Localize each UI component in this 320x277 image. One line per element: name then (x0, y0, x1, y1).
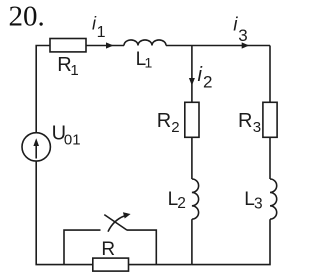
svg-text:1: 1 (97, 24, 106, 41)
label R2 (157, 110, 180, 136)
wire: left branch, source to bottom-left corner (36, 161, 93, 265)
inductor L1 (124, 40, 166, 46)
wire: R1 to L1 (86, 45, 124, 47)
svg-text:1: 1 (70, 62, 78, 79)
current arrow i2 (189, 78, 195, 86)
current arrow i3 (242, 42, 250, 48)
wire: bypass left stub (64, 230, 101, 265)
resistor R3 (263, 102, 277, 137)
wire: L1 to top-right corner (166, 45, 270, 47)
label L2 (168, 189, 186, 212)
wire: R to bottom-right segment (129, 264, 192, 266)
current arrow i1 (106, 42, 114, 48)
label R3 (238, 110, 261, 136)
wire: bypass right stub (127, 230, 157, 265)
svg-text:20.: 20. (9, 0, 45, 32)
svg-text:2: 2 (171, 119, 179, 136)
svg-text:R: R (101, 239, 115, 260)
svg-text:R: R (238, 110, 252, 132)
svg-text:01: 01 (64, 132, 81, 149)
resistor R1 (50, 39, 86, 52)
wire: middle branch, junction to R2 (191, 46, 193, 103)
svg-text:3: 3 (238, 26, 247, 45)
inductor L2 (192, 179, 199, 219)
label R1 (57, 54, 79, 79)
wire: top-left corner to R1 (36, 46, 50, 133)
label U01 (52, 123, 81, 149)
svg-text:1: 1 (145, 55, 153, 71)
label i3 (233, 15, 248, 45)
resistor R (bottom, shunted by switch) (93, 258, 129, 271)
label L1 (136, 49, 153, 71)
resistor R2 (185, 102, 199, 137)
switch blade (104, 215, 127, 231)
svg-text:2: 2 (203, 73, 212, 92)
inductor L3 (270, 179, 277, 219)
svg-text:3: 3 (253, 119, 261, 136)
wire: L3 to bottom-right corner (192, 219, 270, 264)
svg-text:i: i (198, 64, 203, 86)
label i2 (198, 64, 213, 92)
svg-text:3: 3 (254, 196, 263, 213)
svg-text:2: 2 (177, 195, 186, 212)
wire: R2 to L2 (191, 137, 193, 179)
label L3 (244, 189, 262, 213)
wire: L2 to bottom wire (191, 219, 193, 264)
label i1 (92, 13, 106, 41)
switch motion arrow (108, 212, 131, 231)
wire: R3 to L3 (269, 137, 271, 179)
voltage source U01 (22, 133, 50, 161)
wire: right branch, corner to R3 (269, 46, 271, 103)
svg-text:R: R (157, 110, 171, 132)
